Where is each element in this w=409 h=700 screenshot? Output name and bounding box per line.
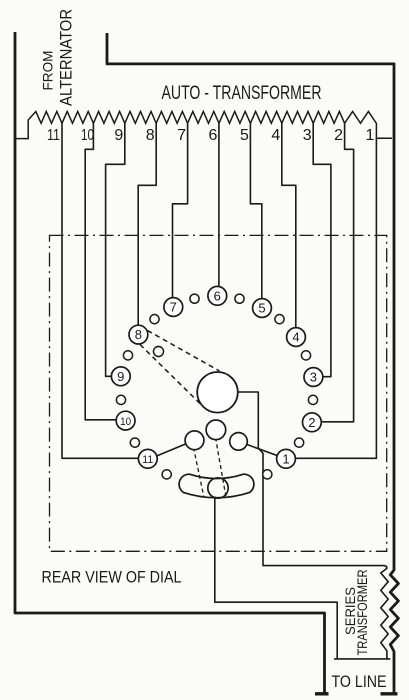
svg-text:6: 6 (214, 288, 221, 303)
svg-text:5: 5 (240, 127, 249, 144)
svg-text:5: 5 (258, 301, 265, 316)
svg-text:AUTO - TRANSFORMER: AUTO - TRANSFORMER (162, 83, 322, 104)
svg-text:11: 11 (47, 127, 60, 144)
svg-text:1: 1 (282, 451, 289, 466)
svg-text:3: 3 (310, 370, 317, 385)
svg-text:3: 3 (303, 127, 312, 144)
svg-text:9: 9 (117, 369, 124, 384)
svg-text:8: 8 (146, 127, 155, 144)
svg-text:6: 6 (209, 127, 218, 144)
svg-text:10: 10 (120, 416, 131, 428)
svg-text:9: 9 (114, 127, 123, 144)
svg-text:11: 11 (142, 454, 153, 466)
svg-text:TRANSFORMER: TRANSFORMER (354, 570, 370, 656)
svg-text:1: 1 (366, 127, 375, 144)
svg-text:4: 4 (292, 330, 299, 345)
svg-text:10: 10 (81, 127, 94, 144)
svg-text:2: 2 (334, 127, 343, 144)
svg-text:7: 7 (170, 300, 177, 315)
svg-text:TO LINE: TO LINE (332, 672, 387, 691)
svg-text:ALTERNATOR: ALTERNATOR (58, 9, 76, 106)
svg-text:4: 4 (271, 127, 280, 144)
svg-text:2: 2 (308, 415, 315, 430)
svg-text:REAR VIEW OF DIAL: REAR VIEW OF DIAL (42, 568, 182, 587)
svg-text:7: 7 (177, 127, 186, 144)
svg-text:FROM: FROM (40, 51, 56, 91)
svg-text:8: 8 (135, 327, 142, 342)
